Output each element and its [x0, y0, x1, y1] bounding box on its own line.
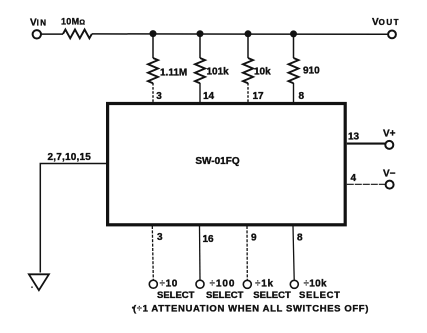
pin 16 bottom wire	[200, 226, 215, 280]
wire R2 to pin 3	[152, 83, 154, 102]
svg-text:17: 17	[253, 91, 265, 102]
switch terminal div100	[196, 279, 244, 302]
svg-text:3: 3	[156, 91, 162, 102]
pin 8 bottom wire	[293, 226, 303, 280]
wire R5 to pin 8	[293, 83, 295, 102]
node junction 2	[197, 30, 204, 37]
terminal VIN	[30, 18, 47, 39]
pin 4 wire to V-	[347, 173, 386, 184]
svg-text:÷10k: ÷10k	[304, 279, 328, 290]
pin 3 bottom wire	[152, 226, 163, 280]
svg-text:SELECT: SELECT	[206, 290, 244, 301]
pin 9 bottom wire	[247, 226, 257, 280]
svg-text:3: 3	[157, 232, 163, 243]
node junction 1	[150, 30, 157, 37]
node junction 4	[290, 30, 297, 37]
svg-text:910: 910	[303, 66, 320, 77]
op-amp U1 SW-01FQ body	[108, 104, 346, 225]
switch terminal div10k	[290, 279, 340, 302]
resistor R1 10M	[61, 17, 92, 39]
svg-text:10k: 10k	[254, 66, 271, 77]
terminal V-	[383, 168, 396, 188]
resistor R4 10k	[243, 58, 271, 83]
ground	[29, 274, 49, 290]
svg-text:V+: V+	[383, 129, 396, 140]
svg-text:VIN: VIN	[30, 18, 47, 29]
svg-text:(÷1 ATTENUATION WHEN ALL SWITC: (÷1 ATTENUATION WHEN ALL SWITCHES OFF)	[133, 303, 369, 314]
svg-text:SW-01FQ: SW-01FQ	[195, 156, 239, 167]
wire VIN to R1	[41, 33, 63, 35]
svg-text:2,7,10,15: 2,7,10,15	[48, 152, 92, 163]
wire top rail R1 to VOUT	[92, 33, 388, 35]
svg-text:16: 16	[203, 234, 215, 245]
resistor R3 101k	[195, 58, 229, 83]
svg-text:9: 9	[251, 233, 257, 244]
terminal V+	[383, 129, 396, 149]
svg-text:101k: 101k	[207, 66, 230, 77]
resistor R5 910	[289, 58, 321, 83]
wire junction4 to R5	[293, 34, 295, 58]
svg-text:SELECT: SELECT	[299, 290, 341, 301]
wire junction3 to R4	[247, 34, 249, 58]
svg-text:8: 8	[297, 233, 303, 244]
switch terminal div10	[149, 279, 194, 302]
svg-text:SELECT: SELECT	[253, 290, 291, 301]
svg-text:÷1k: ÷1k	[255, 279, 274, 290]
svg-text:÷10: ÷10	[160, 279, 178, 290]
svg-text:14: 14	[203, 91, 215, 102]
svg-text:SELECT: SELECT	[157, 290, 195, 301]
svg-text:VOUT: VOUT	[372, 17, 400, 28]
pin 13 wire to V+	[347, 132, 385, 144]
wire junction2 to R3	[199, 34, 201, 58]
wire R3 to pin 14	[199, 83, 201, 102]
node junction 3	[245, 30, 252, 37]
stray speck near ground	[31, 286, 33, 288]
wire junction1 to R2	[152, 34, 154, 58]
svg-text:1.11M: 1.11M	[160, 67, 187, 78]
pins 2,7,10,15 ground wire	[40, 152, 106, 273]
resistor R2 1.11M	[148, 58, 187, 83]
terminal VOUT	[372, 17, 400, 38]
svg-text:V−: V−	[383, 168, 396, 179]
switch terminal div1k	[243, 279, 291, 302]
svg-text:4: 4	[351, 173, 357, 184]
svg-text:8: 8	[299, 91, 305, 102]
svg-text:13: 13	[348, 132, 360, 143]
svg-text:÷100: ÷100	[210, 279, 236, 290]
wire R4 to pin 17	[247, 83, 249, 102]
stray dot	[132, 307, 134, 309]
